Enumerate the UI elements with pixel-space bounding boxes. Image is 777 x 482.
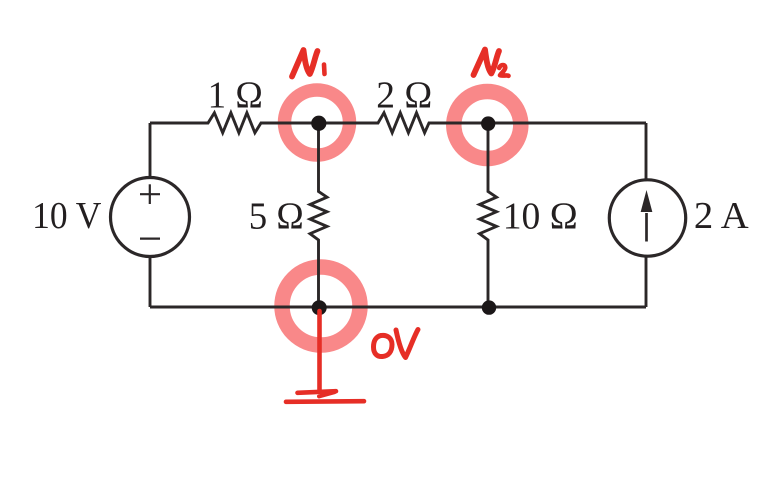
- svg-text:2 Ω: 2 Ω: [376, 74, 432, 116]
- svg-text:1 Ω: 1 Ω: [208, 74, 263, 116]
- svg-text:5 Ω: 5 Ω: [249, 195, 304, 237]
- svg-text:10 V: 10 V: [32, 195, 102, 237]
- svg-text:2 A: 2 A: [694, 195, 749, 237]
- svg-text:10 Ω: 10 Ω: [503, 195, 578, 237]
